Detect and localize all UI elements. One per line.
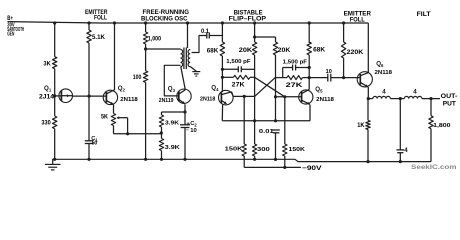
wire cap4 column [399, 99, 401, 150]
svg-text:150K: 150K [225, 146, 244, 152]
heading BISTABLE FLIP-FLOP [229, 9, 267, 22]
wire ground rail [52, 159, 431, 161]
svg-text:1,000: 1,000 [148, 35, 162, 42]
svg-text:27K: 27K [286, 82, 303, 89]
label 2N118 (Q4) [200, 97, 216, 103]
svg-text:FILT: FILT [417, 11, 431, 18]
transistor Q5 [299, 89, 313, 104]
wire to output [422, 97, 440, 100]
label 27K right [286, 82, 303, 89]
svg-text:FOLL: FOLL [94, 15, 107, 22]
label C1 [91, 136, 98, 143]
wire 0.1 to flip-flop [209, 35, 222, 37]
wire 3K to Q1 base node [54, 69, 56, 96]
svg-text:2N118: 2N118 [375, 70, 393, 76]
wire base row to Q6 [309, 77, 360, 79]
svg-text:2N118: 2N118 [200, 97, 216, 103]
transformer T1 core [184, 48, 186, 70]
wire 1000 to node [145, 44, 147, 49]
wire to 300 [254, 121, 256, 144]
wire cap4 to ground [399, 153, 402, 164]
transistor Q6 [357, 72, 372, 87]
node B+ label [7, 15, 13, 22]
wire 150K-L column [243, 96, 245, 144]
label 5K [101, 113, 108, 120]
wire 1800 to ground corner [430, 129, 432, 162]
label +C2 [186, 121, 197, 128]
capacitor 0.01 [272, 130, 280, 161]
svg-text:3.9K: 3.9K [165, 145, 181, 151]
resistor 150K right [283, 144, 287, 156]
wire cross-coupling d2 [255, 77, 276, 96]
wire center column top [253, 21, 256, 42]
resistor 220K [341, 42, 345, 58]
wire 1K to ground [366, 130, 369, 164]
wire base node to 330 [54, 96, 56, 116]
heading FREE-RUNNING BLOCKING OSC [141, 9, 189, 22]
svg-text:2N118: 2N118 [120, 97, 138, 103]
wire 1500pF-R row [283, 68, 310, 78]
wire Q3 emitter node [183, 104, 186, 113]
label 3.9K upper [165, 120, 180, 126]
wire Q5 collector column [308, 21, 311, 43]
wire winding to Q3 collector [181, 67, 186, 90]
svg-text:1,800: 1,800 [433, 123, 450, 129]
wire 1,800 column [430, 99, 432, 116]
watermark SeekIC.com [411, 164, 457, 171]
resistor 20K left [252, 42, 256, 55]
wire 3K column top [53, 21, 56, 56]
svg-text:5K: 5K [101, 113, 108, 120]
label 20K left [239, 47, 253, 54]
label 2N118 (Q5) [316, 97, 335, 103]
svg-text:2N118: 2N118 [316, 97, 335, 103]
node 27K-L tap [221, 76, 224, 79]
wire node to C1 [88, 96, 90, 141]
svg-text:68K: 68K [207, 47, 219, 54]
label 68K left [207, 47, 219, 54]
svg-text:4: 4 [413, 89, 417, 96]
svg-text:GEN: GEN [7, 31, 14, 37]
wire 5.1K column top [87, 21, 90, 30]
svg-text:2N119: 2N119 [159, 98, 174, 104]
svg-text:4: 4 [404, 147, 408, 154]
resistor 1K [366, 120, 370, 129]
svg-text:−: − [186, 127, 189, 132]
transistor Q2 [103, 90, 117, 105]
resistor 3.9K lower [159, 139, 163, 151]
wire node to 100 [145, 49, 147, 71]
label 5.1K [92, 34, 105, 41]
svg-text:OUT-: OUT- [441, 94, 458, 100]
label 2N118 [120, 97, 138, 103]
transformer T1 primary winding [181, 50, 183, 67]
label 2N118 (Q6) [375, 70, 393, 76]
label 4 (cap) [404, 147, 408, 154]
label 50 [92, 141, 98, 147]
svg-text:10: 10 [326, 69, 332, 75]
svg-text:0.1: 0.1 [201, 28, 209, 35]
wire -90V rail [244, 166, 301, 168]
wire between inductors [390, 97, 404, 100]
label 220K [347, 49, 364, 56]
resistor 3.9K upper [159, 112, 163, 127]
transistor Q1 [59, 89, 73, 103]
capacitor C1 [85, 141, 93, 144]
label 2N119 [159, 98, 174, 104]
label Q5 [315, 86, 323, 94]
label C2 value 10 [186, 127, 197, 133]
transformer T1 secondary winding [188, 50, 190, 67]
svg-text:220K: 220K [347, 49, 364, 56]
node bus-300 junction [253, 119, 256, 122]
label 1,000 [148, 35, 162, 42]
wire 100 to ground rail [144, 82, 147, 160]
wire center column mid [254, 55, 256, 121]
resistor 20K right [273, 42, 277, 55]
label 1,500pF right [283, 59, 308, 65]
resistor 1,800 [429, 116, 433, 129]
wire 5K wiper [117, 116, 128, 134]
label Q2 [118, 85, 126, 93]
wire C1 to ground rail [87, 144, 90, 161]
label 330 [41, 120, 51, 127]
svg-text:150K: 150K [289, 147, 306, 153]
node osc bias junction [144, 47, 147, 50]
heading FILT [417, 11, 431, 18]
svg-text:SeekIC.com: SeekIC.com [411, 164, 457, 171]
wire left 68K column top [221, 21, 224, 42]
heading EMITTER FOLL (left) [85, 9, 108, 22]
label 30V SAWTOOTH GEN [7, 23, 24, 38]
label 3.9K lower [165, 145, 181, 151]
label 68K right [313, 47, 325, 54]
wire Q4 emitter leg [221, 105, 223, 121]
node Q1-Q2 coupling [87, 95, 90, 98]
resistor 300 [252, 144, 256, 156]
svg-text:1K: 1K [357, 122, 365, 129]
wire primary bottom to Q3 base [164, 65, 180, 96]
wire 150K-R column [284, 97, 286, 144]
transistor Q4 [219, 90, 255, 105]
resistor 68K left [220, 42, 224, 56]
wire 5K bottom bus [114, 126, 162, 136]
label OUT-PUT [441, 94, 458, 107]
wire Q1 base lead [55, 95, 62, 97]
svg-text:68K: 68K [313, 47, 325, 54]
svg-text:300: 300 [257, 147, 270, 153]
label 0.1 [201, 28, 209, 35]
label 2J14 [39, 93, 54, 100]
svg-text:5.1K: 5.1K [92, 34, 105, 41]
inductor 4 (first) [368, 96, 390, 98]
label 1,500pF left [226, 59, 251, 65]
label 100 [133, 74, 142, 81]
heading EMITTER FOLL (right) [344, 10, 372, 23]
svg-text:4: 4 [382, 89, 386, 96]
capacitor 1,500pF left [238, 66, 241, 72]
wire Q5 base row [276, 95, 302, 98]
label Q1 [44, 85, 52, 93]
wire emitter row to 3.9K [162, 111, 186, 113]
svg-text:3.9K: 3.9K [165, 120, 180, 126]
wire B+ rail [8, 22, 369, 23]
label 4 (L1) [382, 89, 386, 96]
label Q6 [376, 60, 384, 68]
label 3K [43, 60, 51, 67]
capacitor 4 (filter) [396, 150, 404, 153]
label 0.01 [259, 129, 275, 135]
node 3.9K junction [160, 127, 163, 139]
wire Q6 emitter node [367, 87, 370, 100]
capacitor C2 [180, 112, 190, 161]
label 150K left [225, 146, 244, 152]
wire right 20K to base row [275, 55, 277, 121]
wire node to transformer primary [146, 48, 181, 50]
svg-text:1,500 pF: 1,500 pF [283, 59, 308, 65]
wire Q5 emitter leg [309, 105, 311, 121]
wire 150K-R to -90V [283, 156, 286, 169]
wire 220K to base row [342, 58, 345, 79]
svg-text:−90V: −90V [302, 165, 322, 172]
wire 3.9K to ground rail [160, 151, 163, 161]
capacitor 1,500pF right [293, 65, 296, 71]
capacitor 10 [328, 74, 331, 82]
svg-text:50: 50 [92, 141, 98, 147]
wire emitter bus [222, 120, 310, 122]
wire Q2 collector [113, 21, 116, 90]
resistor 5.1K [87, 30, 91, 43]
svg-text:100: 100 [133, 74, 142, 81]
node Q4 collector junction [243, 95, 246, 98]
label Q3 [168, 86, 176, 94]
resistor 330 [53, 116, 57, 129]
wire 330 to ground rail [53, 129, 56, 161]
label 10 [326, 69, 332, 75]
inductor 4 (second) [404, 96, 422, 98]
ground (transformer) [192, 72, 200, 77]
wire right 20K column [275, 37, 277, 42]
resistor 100 [143, 71, 147, 83]
resistor 27K left [222, 75, 254, 79]
svg-text:330: 330 [41, 120, 51, 127]
node 1500pF-L tap [221, 68, 224, 71]
wire Q6 collector to rail [367, 23, 369, 73]
label -90V [302, 165, 322, 172]
resistor 27K right [276, 76, 310, 80]
wire Q2 emitter to pot [113, 105, 115, 114]
label 1K [357, 122, 365, 129]
svg-text:0.01: 0.01 [259, 129, 275, 135]
label 27K left [232, 81, 245, 88]
svg-text:3K: 3K [43, 60, 51, 67]
label 300 [257, 147, 270, 153]
svg-text:FLIP–FLOP: FLIP–FLOP [229, 16, 267, 23]
wire 68K-R to Q5 collector [308, 55, 311, 89]
svg-text:10: 10 [190, 128, 197, 134]
svg-text:C2: C2 [190, 121, 197, 128]
wire cross-coupling d1 [255, 77, 285, 97]
label 1,800 [433, 123, 450, 129]
potentiometer 5K [111, 114, 115, 126]
wire secondary bottom to ground [190, 67, 196, 72]
node bus-0.01 junction [274, 119, 277, 122]
label 150K right [289, 147, 306, 153]
wire 1500pF-L row [222, 68, 254, 70]
label Q4 [211, 85, 219, 93]
wire 5.1K to node [88, 43, 90, 96]
label 4 (L2) [413, 89, 417, 96]
resistor 3K [53, 57, 57, 69]
svg-text:BLOCKING OSC: BLOCKING OSC [141, 15, 188, 22]
wire Q1 collector row [72, 95, 106, 97]
ground (left) [45, 159, 61, 170]
label 20K right [278, 47, 291, 54]
svg-text:20K: 20K [278, 47, 291, 54]
wire rail to transformer [186, 21, 189, 48]
node Q5 base junction [274, 95, 277, 98]
resistor 68K right [307, 42, 311, 55]
wire 20K branch [255, 36, 276, 38]
wire 1K column [367, 99, 369, 121]
capacitor 0.1 [207, 33, 210, 39]
resistor 1,000 [143, 32, 147, 44]
wire 150K-L to -90V [243, 156, 245, 167]
wire 1000 column top [144, 21, 147, 32]
node Q1 base junction [53, 94, 56, 97]
svg-text:27K: 27K [232, 81, 245, 88]
wire 220K column [342, 21, 345, 42]
transistor Q3 [177, 89, 191, 104]
resistor 150K left [242, 144, 246, 156]
svg-text:20K: 20K [239, 47, 253, 54]
wire secondary top to 0.1 cap [192, 36, 207, 53]
svg-text:PUT: PUT [443, 101, 456, 107]
svg-text:2J14: 2J14 [39, 93, 54, 100]
svg-text:1,500 pF: 1,500 pF [226, 59, 251, 65]
wire 68K to Q4 base [221, 56, 223, 92]
wire 300 to ground [253, 156, 256, 161]
svg-text:FOLL: FOLL [350, 16, 365, 23]
